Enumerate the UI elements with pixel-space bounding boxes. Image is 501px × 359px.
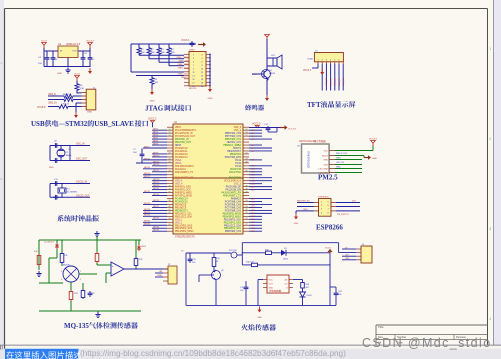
svg-text:NET21: NET21	[153, 188, 160, 190]
svg-text:PC15/OSC32_OUT: PC15/OSC32_OUT	[175, 136, 196, 138]
svg-text:-: -	[112, 272, 113, 275]
svg-text:PA2/USART2_TX: PA2/USART2_TX	[175, 171, 194, 174]
svg-text:MQ-135: MQ-135	[64, 322, 89, 330]
svg-text:PC10: PC10	[235, 166, 241, 168]
svg-text:PB9/TIM4_CH4: PB9/TIM4_CH4	[225, 231, 242, 233]
svg-text:PD2/TIM3_ETR: PD2/TIM3_ETR	[225, 157, 242, 159]
svg-text:PA12/USB_DP: PA12/USB_DP	[226, 186, 242, 189]
svg-text:PC7/TIM8_CH2: PC7/TIM8_CH2	[225, 207, 242, 209]
svg-text:5: 5	[334, 60, 335, 62]
svg-text:LED ON: LED ON	[336, 162, 344, 164]
svg-text:VDDA: VDDA	[175, 162, 182, 165]
svg-text:PC3/ADC13: PC3/ADC13	[175, 156, 188, 159]
svg-text:2: 2	[489, 137, 491, 141]
svg-text:25: 25	[169, 162, 171, 164]
svg-text:NET30: NET30	[144, 215, 151, 217]
svg-text:PB5/I2C1_SMBA: PB5/I2C1_SMBA	[223, 144, 241, 147]
svg-text:PD1/OSC_OUT: PD1/OSC_OUT	[175, 142, 192, 144]
svg-text:PA0-WKUP/ADC0: PA0-WKUP/ADC0	[175, 165, 194, 168]
svg-text:VDD_4: VDD_4	[175, 184, 183, 186]
svg-text:GND: GND	[157, 275, 162, 277]
svg-text:NET1: NET1	[153, 129, 159, 131]
svg-text:LED3: LED3	[141, 246, 147, 248]
svg-text:14: 14	[169, 129, 171, 131]
svg-text:VCC5 D: VCC5 D	[37, 107, 46, 109]
svg-text:PB6/TIM4_CH1: PB6/TIM4_CH1	[225, 139, 242, 141]
svg-text:GND: GND	[150, 101, 155, 103]
svg-text:58: 58	[246, 132, 248, 134]
svg-text:10K: 10K	[151, 52, 155, 54]
svg-text:NET23: NET23	[153, 194, 160, 196]
svg-text:PC0/ADC10: PC0/ADC10	[175, 147, 188, 150]
svg-text:PI3_ESP-TX: PI3_ESP-TX	[337, 214, 349, 216]
svg-text:PA8/MCO: PA8/MCO	[231, 198, 241, 201]
svg-text:BOOT0: BOOT0	[233, 148, 242, 150]
svg-text:44: 44	[169, 218, 171, 220]
svg-text:PA11/USB_DM: PA11/USB_DM	[226, 189, 242, 192]
svg-text:PM2.5 OUT: PM2.5 OUT	[336, 153, 348, 155]
svg-text:10K: 10K	[171, 52, 175, 54]
svg-text:57: 57	[246, 135, 248, 137]
svg-text:NET26: NET26	[144, 203, 151, 205]
svg-text:NET6: NET6	[153, 143, 159, 145]
svg-text:32.768KHz: 32.768KHz	[67, 192, 77, 194]
svg-text:(https://img-blog.csdnimg.cn/1: (https://img-blog.csdnimg.cn/109bdb8de18…	[80, 349, 346, 358]
svg-text:USB: USB	[31, 120, 45, 128]
svg-text:31: 31	[246, 212, 248, 214]
svg-text:R6 22: R6 22	[63, 94, 70, 96]
svg-text:GND: GND	[257, 317, 262, 319]
svg-text:OSC32_IN: OSC32_IN	[76, 182, 87, 184]
svg-text:NET34: NET34	[153, 227, 160, 229]
svg-text:OLED: OLED	[307, 58, 313, 60]
svg-text:PM2.5: PM2.5	[318, 174, 338, 182]
svg-text:40: 40	[169, 206, 171, 208]
svg-text:38: 38	[169, 200, 171, 202]
svg-text:PB11/I2C2_SDA: PB11/I2C2_SDA	[224, 224, 241, 227]
svg-text:OSC_IN: OSC_IN	[76, 144, 85, 146]
svg-text:PB1/ADC9: PB1/ADC9	[175, 206, 187, 209]
svg-text:3: 3	[489, 227, 491, 231]
svg-text:LCD_D4: LCD_D4	[343, 77, 345, 86]
svg-text:PC14/OSC32_IN: PC14/OSC32_IN	[175, 133, 193, 135]
svg-text:NET29: NET29	[144, 212, 151, 214]
svg-text:USB: USB	[87, 112, 92, 114]
svg-text:GND: GND	[345, 258, 350, 260]
svg-text:PB15/SPI2_MOSI: PB15/SPI2_MOSI	[223, 213, 242, 215]
svg-text:JTAG_TRST: JTAG_TRST	[176, 56, 188, 59]
svg-text:PA15/JTDI: PA15/JTDI	[230, 168, 241, 171]
svg-text:PB13/SPI2_SCK: PB13/SPI2_SCK	[175, 228, 193, 230]
svg-text:NET14: NET14	[144, 167, 151, 169]
svg-text:NET5: NET5	[153, 140, 159, 142]
svg-text:24: 24	[169, 159, 171, 161]
svg-text:PB11/I2C2_SDA: PB11/I2C2_SDA	[175, 215, 192, 218]
svg-text:4: 4	[61, 271, 62, 273]
svg-text:PA6/SPI1_MISO: PA6/SPI1_MISO	[175, 192, 192, 195]
svg-text:1.5K: 1.5K	[80, 88, 85, 90]
svg-text:NET17: NET17	[144, 176, 151, 178]
svg-text:48: 48	[246, 162, 248, 164]
svg-text:33: 33	[169, 185, 171, 187]
svg-text:VCC3.3: VCC3.3	[181, 39, 190, 42]
svg-text:35: 35	[246, 200, 248, 202]
svg-text:PB10/I2C2_SCL: PB10/I2C2_SCL	[224, 228, 242, 230]
svg-text:10K: 10K	[141, 52, 145, 54]
svg-text:NET10: NET10	[153, 155, 160, 157]
svg-text:NET22: NET22	[144, 191, 151, 193]
svg-text:28: 28	[169, 170, 171, 172]
svg-text:PC2/ADC12: PC2/ADC12	[175, 153, 188, 156]
svg-text:3: 3	[326, 60, 327, 62]
svg-text:PA13/JTMS: PA13/JTMS	[229, 177, 242, 180]
svg-text:39: 39	[246, 188, 248, 190]
svg-text:VCC3.3: VCC3.3	[369, 138, 377, 140]
svg-text:46: 46	[169, 224, 171, 226]
svg-text:45: 45	[246, 170, 248, 172]
svg-text:PA14/JTCK: PA14/JTCK	[229, 171, 241, 174]
svg-text:4: 4	[330, 60, 331, 62]
svg-text:GND: GND	[303, 209, 308, 211]
svg-text:8MHz: 8MHz	[66, 155, 71, 157]
svg-text:PB4/JNTRST: PB4/JNTRST	[227, 151, 241, 153]
svg-text:AMS1117-3.3: AMS1117-3.3	[66, 43, 81, 46]
svg-text:PB0/ADC8: PB0/ADC8	[175, 203, 187, 206]
svg-text:VDD_2: VDD_2	[234, 127, 242, 129]
svg-text:PB3/JTDO: PB3/JTDO	[230, 154, 241, 156]
svg-text:16: 16	[169, 135, 171, 137]
svg-text:GND: GND	[323, 160, 328, 162]
svg-text:ILED: ILED	[323, 165, 328, 167]
svg-text:6: 6	[338, 60, 339, 62]
svg-text:USB_D+: USB_D+	[48, 102, 58, 104]
svg-text:OSC32_OUT: OSC32_OUT	[76, 195, 90, 197]
svg-text:PC4/ADC14: PC4/ADC14	[175, 198, 188, 201]
svg-text:JTAG_TDI: JTAG_TDI	[178, 59, 188, 62]
svg-text:NET12: NET12	[153, 161, 160, 163]
svg-text:RESET: RESET	[181, 77, 189, 79]
svg-text:VBAT: VBAT	[175, 126, 181, 129]
svg-text:VCC3.3: VCC3.3	[303, 70, 312, 72]
svg-text:15: 15	[169, 132, 171, 134]
svg-text:32: 32	[246, 209, 248, 211]
svg-text:NET16: NET16	[144, 173, 151, 175]
svg-text:NET35: NET35	[153, 230, 160, 232]
svg-text:PC9/TIM8_CH4: PC9/TIM8_CH4	[225, 201, 242, 203]
svg-text:VCC: VCC	[324, 151, 329, 153]
svg-text:LED-GND: LED-GND	[319, 169, 329, 171]
svg-text:NET3: NET3	[153, 135, 159, 137]
svg-text:OUT: OUT	[72, 51, 77, 53]
svg-text:NRST: NRST	[175, 145, 182, 147]
svg-text:PC12: PC12	[235, 160, 241, 162]
svg-text:VCC3.3: VCC3.3	[288, 129, 296, 131]
svg-text:NET15: NET15	[153, 170, 160, 172]
svg-text:GND: GND	[57, 73, 62, 75]
svg-text:NET9: NET9	[153, 152, 159, 154]
svg-text:PB7/TIM4_CH2: PB7/TIM4_CH2	[225, 136, 242, 138]
svg-text:R17 10K: R17 10K	[229, 250, 237, 252]
svg-text:PA2-ESP_RX: PA2-ESP_RX	[297, 200, 310, 203]
svg-text:GND: GND	[269, 288, 274, 290]
svg-text:ESP8266s: ESP8266s	[319, 197, 330, 199]
svg-text:JTAG_TDO: JTAG_TDO	[177, 73, 188, 76]
svg-text:VCC: VCC	[269, 280, 274, 282]
svg-text:LCD_D2: LCD_D2	[335, 77, 337, 86]
svg-text:4: 4	[489, 317, 491, 321]
svg-text:LED3: LED3	[307, 295, 313, 297]
svg-text:7: 7	[343, 60, 344, 62]
svg-text:NET32: NET32	[144, 221, 151, 223]
svg-text:PA10/USART1_RX: PA10/USART1_RX	[221, 192, 241, 195]
svg-text:R7 22: R7 22	[63, 104, 70, 106]
svg-text:JTAG_TCK: JTAG_TCK	[178, 66, 189, 69]
svg-text:10K: 10K	[161, 52, 165, 54]
svg-text:PB2/BOOT1: PB2/BOOT1	[175, 210, 188, 212]
svg-text:NET4: NET4	[153, 137, 159, 139]
svg-text:VSSA: VSSA	[175, 159, 182, 162]
svg-text:VDD_1: VDD_1	[175, 222, 183, 224]
svg-text:42: 42	[169, 212, 171, 214]
svg-text:VCC3.3: VCC3.3	[148, 118, 157, 121]
svg-text:1: 1	[317, 60, 318, 62]
svg-text:LCD_D1: LCD_D1	[330, 77, 332, 86]
svg-text:PA9/USART1_TX: PA9/USART1_TX	[223, 195, 242, 198]
svg-text:GND: GND	[336, 167, 341, 169]
svg-text:PB10/I2C2_SCL: PB10/I2C2_SCL	[175, 213, 193, 215]
svg-text:VSS_3: VSS_3	[234, 184, 242, 186]
svg-text:JTAG: JTAG	[145, 105, 164, 113]
svg-text:PC13/TAMPER-RTC: PC13/TAMPER-RTC	[175, 129, 197, 132]
svg-text:VCC3.3/DFU-1A: VCC3.3/DFU-1A	[224, 180, 241, 183]
svg-text:35: 35	[169, 191, 171, 193]
svg-text:2: 2	[80, 279, 81, 281]
svg-text:STM32F103RCT6: STM32F103RCT6	[175, 236, 195, 239]
svg-text:PA3/USART2_RX: PA3/USART2_RX	[175, 177, 194, 180]
svg-text:49: 49	[246, 159, 248, 161]
svg-text:PA4/SPI1_NSS: PA4/SPI1_NSS	[175, 186, 191, 189]
svg-text:PC8/TIM8_CH3: PC8/TIM8_CH3	[225, 204, 242, 206]
svg-text:Title: Title	[378, 325, 384, 329]
svg-text:41: 41	[169, 209, 171, 211]
svg-text:NET2: NET2	[153, 132, 159, 134]
svg-text:PA5/SPI1_SCK: PA5/SPI1_SCK	[175, 189, 191, 192]
svg-text:PA7/SPI1_MOSI: PA7/SPI1_MOSI	[175, 195, 192, 198]
svg-text:PB12/SPI2_NSS: PB12/SPI2_NSS	[175, 225, 193, 227]
svg-text:VSS_4: VSS_4	[175, 181, 183, 183]
svg-text:HDC20: HDC20	[189, 88, 197, 90]
svg-text:GP2Y1014AU: GP2Y1014AU	[307, 151, 311, 168]
svg-text:GND: GND	[294, 223, 299, 225]
svg-text:NET33: NET33	[144, 224, 151, 226]
svg-text:OSC_OUT: OSC_OUT	[76, 159, 88, 161]
svg-text:R16 10K: R16 10K	[246, 261, 254, 263]
svg-text:34: 34	[169, 188, 171, 190]
svg-text:29: 29	[246, 218, 248, 220]
svg-text:TFT: TFT	[307, 101, 321, 109]
svg-text:VCC3.3: VCC3.3	[252, 123, 261, 126]
svg-text:1: 1	[489, 47, 491, 51]
svg-text:PB12/SPI2_NSS: PB12/SPI2_NSS	[224, 222, 242, 224]
svg-text:PD0/OSC_IN: PD0/OSC_IN	[175, 139, 189, 141]
svg-text:NET11: NET11	[144, 158, 151, 160]
svg-text:GND: GND	[336, 158, 341, 160]
svg-text:AO: AO	[285, 279, 288, 282]
svg-text:CSDN @Mdc_stdio: CSDN @Mdc_stdio	[362, 336, 492, 350]
svg-text:GND: GND	[49, 167, 54, 169]
svg-text:PA1/ADC1: PA1/ADC1	[175, 168, 187, 171]
svg-text:S8050: S8050	[269, 73, 276, 75]
svg-text:VSS_1: VSS_1	[175, 219, 183, 221]
svg-text:NET28: NET28	[144, 209, 151, 211]
svg-text:PB8/TIM4_CH3: PB8/TIM4_CH3	[225, 133, 242, 135]
svg-text:51: 51	[246, 153, 248, 155]
svg-text:MQ135: MQ135	[63, 265, 71, 267]
svg-text:LED4: LED4	[283, 258, 289, 260]
svg-text:JTAG_TMS: JTAG_TMS	[177, 63, 188, 66]
svg-text:LCD_D3: LCD_D3	[339, 77, 341, 86]
svg-text:STM32: STM32	[65, 120, 88, 128]
svg-text:NET19: NET19	[153, 182, 160, 184]
svg-text:PB14/SPI2_MISO: PB14/SPI2_MISO	[175, 231, 194, 233]
svg-text:AOUT: AOUT	[322, 155, 329, 158]
svg-text:NET31: NET31	[153, 218, 160, 220]
svg-text:NET18: NET18	[153, 179, 160, 181]
svg-text:GND: GND	[372, 158, 377, 160]
svg-text:33: 33	[246, 206, 248, 208]
svg-text:PB14/SPI2_MISO: PB14/SPI2_MISO	[223, 216, 242, 218]
svg-text:VSS_2: VSS_2	[234, 130, 242, 132]
svg-text:1: 1	[80, 271, 81, 273]
svg-text:NET25: NET25	[153, 200, 160, 202]
svg-text:PC6/TIM8_CH1: PC6/TIM8_CH1	[225, 210, 242, 212]
svg-text:22: 22	[169, 153, 171, 155]
svg-text:NET27: NET27	[153, 206, 160, 208]
svg-text:38: 38	[246, 191, 248, 193]
svg-text:D2 LED2-G: D2 LED2-G	[44, 242, 55, 244]
svg-text:PC11: PC11	[235, 163, 241, 165]
svg-text:NET7: NET7	[144, 146, 150, 148]
svg-text:GND: GND	[208, 98, 213, 100]
svg-text:DO: DO	[285, 284, 288, 286]
svg-text:NET001_CH4: NET001_CH4	[227, 142, 242, 144]
svg-text:PC1/ADC11: PC1/ADC11	[175, 150, 188, 153]
svg-text:PB13/SPI2_SCK: PB13/SPI2_SCK	[224, 219, 242, 221]
svg-text:27: 27	[246, 224, 248, 226]
svg-text:USB_D-: USB_D-	[48, 94, 57, 96]
svg-text:LCD_D0: LCD_D0	[326, 77, 328, 86]
svg-text:59: 59	[246, 129, 248, 131]
svg-text:40: 40	[246, 185, 248, 187]
svg-text:ESP8266: ESP8266	[316, 224, 343, 232]
svg-text:3: 3	[61, 279, 62, 281]
svg-text:NET13: NET13	[153, 164, 160, 166]
svg-text:VCC5: VCC5	[325, 248, 332, 250]
svg-text:PC5/ADC15: PC5/ADC15	[175, 200, 188, 203]
svg-text:JTAG: JTAG	[189, 49, 195, 52]
svg-text:USB_SLAVE: USB_SLAVE	[94, 120, 134, 128]
svg-text:NET20: NET20	[153, 185, 160, 187]
svg-text:2: 2	[322, 60, 323, 62]
